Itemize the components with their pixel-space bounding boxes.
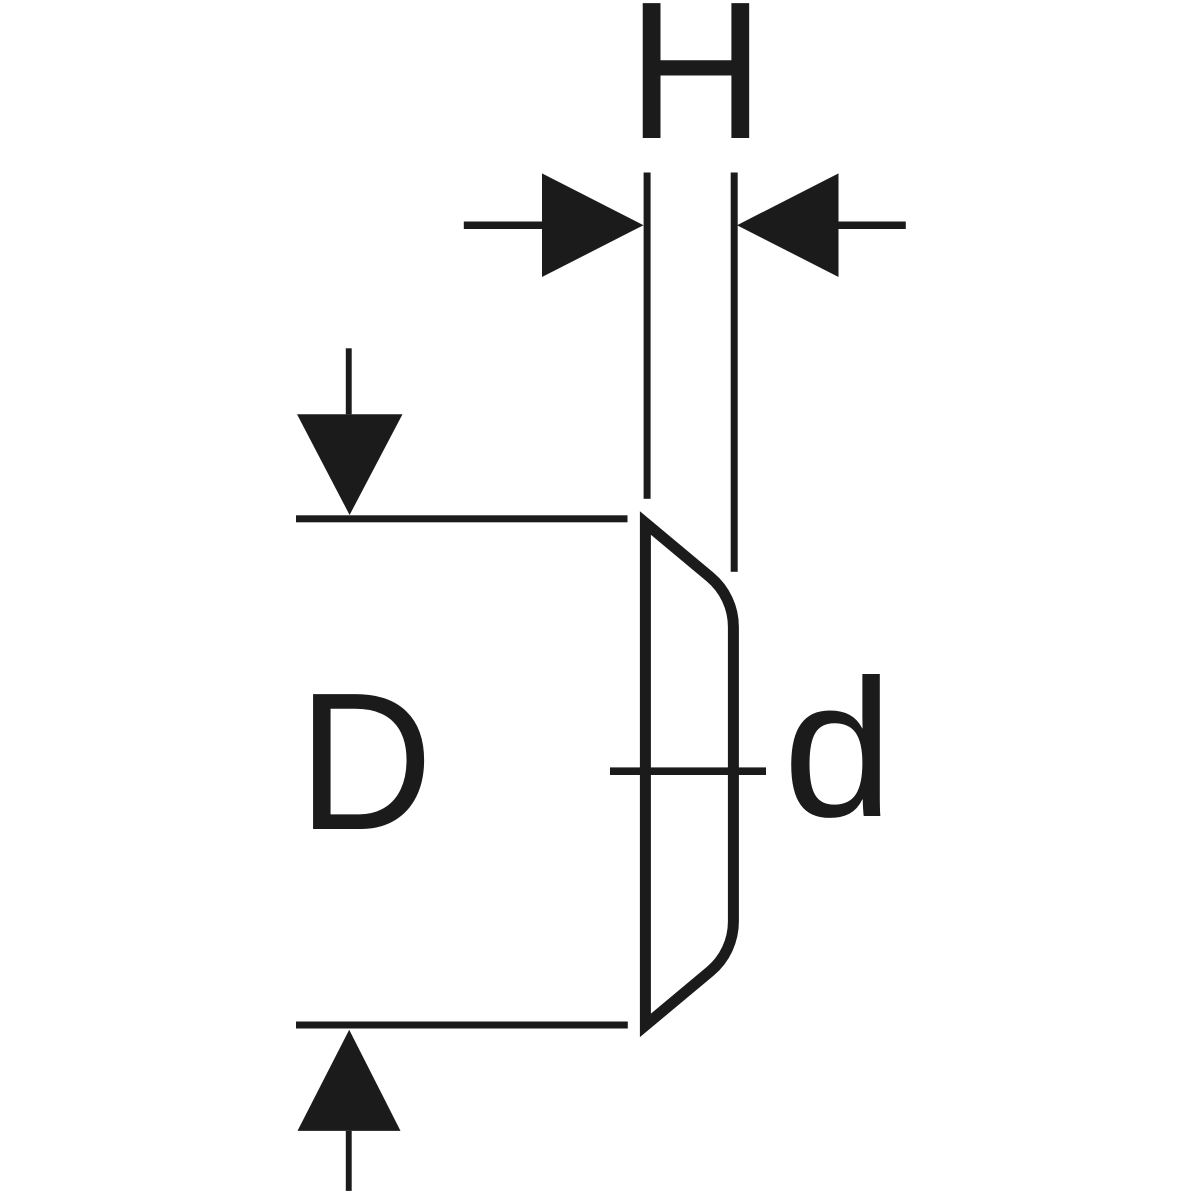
centerline <box>610 767 766 775</box>
arrow D top head <box>297 414 403 515</box>
arrow D bottom stem <box>346 1131 352 1191</box>
gasket profile outline <box>645 523 733 1025</box>
arrow D bottom head <box>298 1030 401 1131</box>
svg-text:H: H <box>627 0 765 180</box>
extension line D top <box>296 515 628 522</box>
arrow D top stem <box>346 348 352 414</box>
svg-text:d: d <box>783 639 893 858</box>
dimension line H right <box>731 173 738 572</box>
arrow H right head <box>737 173 839 277</box>
svg-text:D: D <box>298 651 433 871</box>
arrow H right leader <box>838 222 906 230</box>
extension line D bottom <box>296 1022 628 1029</box>
dimension line H left <box>644 173 651 499</box>
arrow H left leader <box>464 222 543 230</box>
arrow H left head <box>542 173 644 277</box>
